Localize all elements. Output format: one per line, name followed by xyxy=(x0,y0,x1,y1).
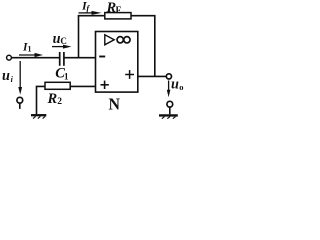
label ui xyxy=(2,68,14,84)
label R2 xyxy=(47,91,63,107)
wire: stub below left terminal xyxy=(19,103,21,109)
label If xyxy=(81,0,90,13)
bottom-right terminal (open circle) xyxy=(167,101,173,107)
voltage ui arrow xyxy=(18,61,22,95)
label C1 xyxy=(55,66,69,82)
label I1 xyxy=(22,41,32,53)
svg-text:1: 1 xyxy=(64,71,69,81)
resistor R2 box xyxy=(45,82,70,89)
input terminal (open circle, top-left) xyxy=(7,55,12,60)
svg-text:N: N xyxy=(109,95,121,114)
svg-text:C: C xyxy=(60,36,67,46)
svg-text:o: o xyxy=(179,82,183,92)
wire: RF to top-right corner and down to output node xyxy=(131,16,155,77)
svg-text:1: 1 xyxy=(28,44,32,53)
wire: top rail left segment to RF xyxy=(78,15,105,17)
voltage uo arrow xyxy=(167,81,171,98)
op-amp U1 box xyxy=(96,32,138,93)
op-amp infinity gain symbol xyxy=(117,37,130,43)
voltage uC arrow xyxy=(52,45,72,49)
label RF xyxy=(106,0,122,16)
svg-text:2: 2 xyxy=(57,97,62,107)
op-amp output polarity mark (plus) xyxy=(125,70,134,79)
wire: R2 to op-amp non-inverting input xyxy=(70,85,95,87)
resistor RF box xyxy=(105,13,131,19)
op-amp triangle symbol xyxy=(105,35,114,45)
wire: R2 left lead to ground xyxy=(37,86,46,114)
wire: capacitor to op-amp inverting input xyxy=(64,57,96,59)
wire: stub to right ground xyxy=(169,107,171,114)
svg-text:R: R xyxy=(47,91,58,107)
label uC xyxy=(53,31,67,47)
label N xyxy=(109,95,121,114)
output terminal (open circle) xyxy=(166,74,171,79)
wire: op-amp output xyxy=(138,75,167,77)
capacitor C1 plates xyxy=(59,52,61,66)
wire: input terminal to capacitor C1 xyxy=(11,57,59,59)
svg-text:u: u xyxy=(2,68,10,84)
svg-text:u: u xyxy=(171,77,179,93)
ground (R2) xyxy=(31,115,46,118)
op-amp non-inverting input mark (plus) xyxy=(101,81,109,89)
ground (output) xyxy=(159,115,178,118)
wire: feedback tap vertical (node to top rail) xyxy=(78,16,80,59)
bottom-left terminal (open circle) xyxy=(17,97,23,103)
current I1 arrow xyxy=(19,53,43,57)
op-amp inverting input mark (minus) xyxy=(99,56,105,58)
label uo xyxy=(171,77,183,93)
svg-text:u: u xyxy=(53,31,61,47)
current If arrow xyxy=(79,11,102,15)
svg-text:F: F xyxy=(116,6,122,16)
